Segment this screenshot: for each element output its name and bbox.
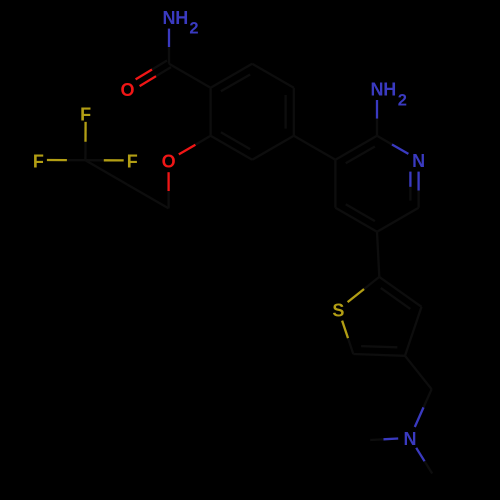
bond B3-B2 double — [211, 64, 253, 88]
bond C6-C5 — [377, 208, 419, 232]
svg-text:F: F — [33, 151, 44, 171]
svg-text:O: O — [120, 80, 134, 100]
bond S-Ct2 — [348, 289, 365, 302]
bond B5-B4 double — [293, 88, 295, 136]
svg-text:H: H — [383, 80, 396, 100]
bond C4-C3 — [334, 160, 336, 208]
bond C3-C2 double — [335, 136, 377, 160]
svg-text:N: N — [404, 429, 417, 449]
svg-text:N: N — [412, 151, 425, 171]
bond Ct4-CH2c — [405, 356, 432, 389]
bond Ct5-S — [348, 338, 353, 354]
bond B1-O_eth — [195, 136, 210, 145]
svg-text:H: H — [175, 8, 188, 28]
svg-text:2: 2 — [189, 19, 198, 37]
bond B1-B6 double — [211, 136, 253, 160]
bond B5-C3 — [294, 136, 336, 160]
bond C_cf3-F_r — [85, 159, 103, 161]
bond Ct3-Ct4 — [405, 307, 422, 356]
bond N_dm-Me2 — [416, 448, 424, 462]
bond C5-C4 double — [335, 208, 377, 232]
bond C_am-O_carb double — [152, 61, 167, 70]
svg-text:O: O — [162, 152, 176, 172]
bond C_am-B2 — [169, 64, 211, 88]
bond N_am-C_am — [168, 29, 170, 47]
svg-text:S: S — [332, 301, 344, 321]
bond N1-C6 double — [417, 172, 419, 191]
bond N_dm-Me1 — [383, 437, 398, 440]
bond CH2b-C_cf3 — [85, 160, 127, 184]
bond B2-B1 — [209, 88, 211, 136]
bond C5-Ct2 — [377, 232, 379, 277]
bond B6-B5 — [252, 136, 294, 160]
bond CH2a-CH2b — [127, 184, 169, 208]
svg-text:F: F — [80, 105, 91, 125]
bond O_eth-CH2a — [167, 172, 169, 191]
bond CH2c-N_dm — [424, 389, 432, 407]
svg-text:N: N — [163, 8, 176, 28]
bond C2-N1 — [377, 136, 392, 145]
bond C_cf3-F_t — [84, 142, 86, 160]
bond Ct2-Ct3 double — [379, 277, 421, 307]
svg-text:F: F — [127, 152, 138, 172]
bond B4-B3 — [252, 64, 294, 88]
svg-text:N: N — [371, 80, 384, 100]
bond Ct4-Ct5 double — [353, 354, 405, 356]
bond C_cf3-F_l — [67, 159, 86, 161]
svg-text:2: 2 — [398, 92, 407, 110]
bond N_py2-C2 — [376, 100, 378, 119]
